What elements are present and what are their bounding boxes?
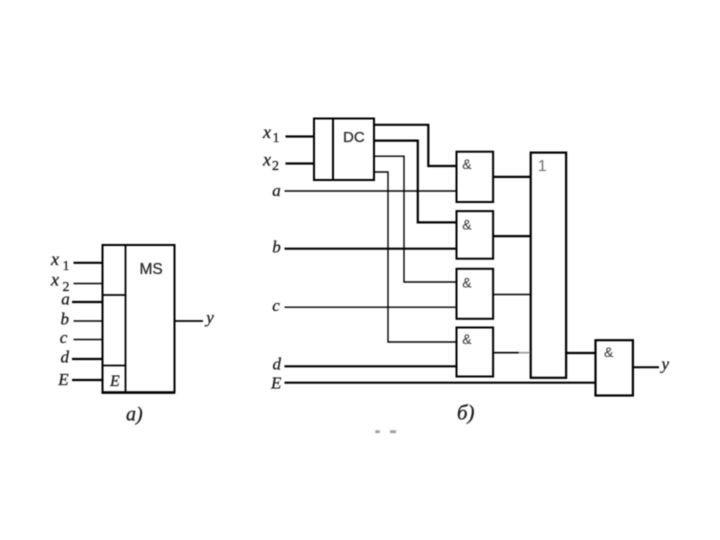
- AND gate DD3 body: [457, 269, 494, 319]
- svg-text:DC: DC: [343, 129, 365, 146]
- svg-text:x: x: [50, 270, 59, 290]
- wire d to MS: [72, 358, 102, 360]
- svg-text:2: 2: [272, 159, 279, 174]
- svg-text:d: d: [273, 355, 282, 374]
- OR gate DD6 body (1): [531, 153, 566, 378]
- MS data/enable section divider: [102, 365, 125, 367]
- multiplexer D1 (MS) body: [102, 245, 176, 393]
- wire x1 to MS: [74, 262, 103, 264]
- svg-text:а): а): [126, 404, 143, 426]
- wire b to AND2: [285, 248, 457, 250]
- wire AND1 output to OR: [493, 176, 531, 178]
- svg-text:y: y: [660, 355, 670, 374]
- AND gate DD1 body: [457, 152, 494, 202]
- svg-text:E: E: [57, 370, 69, 389]
- svg-text:&: &: [462, 331, 472, 347]
- wire AND2 output to OR: [493, 235, 531, 237]
- stray speckle marks: [375, 430, 396, 433]
- svg-text:a: a: [272, 181, 281, 200]
- svg-text:&: &: [462, 217, 472, 233]
- wire MS output y: [175, 320, 204, 322]
- wire DC output 2 to AND3: [374, 156, 457, 282]
- wire a to MS: [72, 301, 102, 303]
- wire x2 to MS: [74, 283, 103, 285]
- input label x1 (a): [50, 249, 70, 274]
- wire AND3 output to OR: [493, 294, 531, 296]
- wire OR output to AND5: [566, 352, 595, 354]
- svg-text:x: x: [262, 122, 271, 142]
- svg-text:&: &: [604, 344, 614, 360]
- input label x2 (a): [50, 270, 70, 296]
- wire E to MS: [72, 379, 102, 381]
- wire DC output 1 to AND2: [374, 141, 457, 223]
- svg-text:x: x: [50, 249, 59, 269]
- wire b to MS: [74, 320, 103, 322]
- wire c to MS: [74, 339, 103, 341]
- svg-text:x: x: [262, 150, 271, 170]
- svg-text:d: d: [61, 348, 70, 367]
- input label x2 (b): [262, 150, 279, 175]
- AND gate DD4 body: [457, 328, 494, 377]
- wire AND5 output y: [633, 366, 659, 368]
- wire x2 to DC: [286, 162, 315, 164]
- wire AND4 output to OR: [493, 352, 531, 354]
- svg-text:&: &: [462, 275, 472, 291]
- svg-text:1: 1: [63, 259, 70, 274]
- svg-text:1: 1: [538, 158, 547, 175]
- svg-text:E: E: [270, 373, 282, 392]
- svg-text:б): б): [457, 401, 475, 425]
- svg-text:c: c: [272, 296, 280, 315]
- AND gate DD5 body: [596, 340, 633, 395]
- wire x1 to DC: [286, 135, 315, 137]
- wire DC output 0 to AND1: [374, 125, 457, 166]
- svg-text:&: &: [462, 156, 472, 172]
- wire E to AND5: [285, 382, 596, 384]
- wire d to AND4: [285, 365, 457, 367]
- svg-text:E: E: [109, 373, 120, 390]
- input label x1 (b): [262, 122, 280, 146]
- wire a to AND1: [285, 190, 457, 192]
- decoder D2 (DC) body: [314, 119, 374, 181]
- MS select/data section divider: [102, 294, 125, 296]
- svg-text:b: b: [61, 310, 70, 329]
- svg-text:a: a: [61, 290, 70, 309]
- wire c to AND3: [285, 306, 457, 308]
- svg-text:c: c: [60, 328, 68, 347]
- AND gate DD2 body: [457, 211, 494, 259]
- svg-text:b: b: [272, 237, 281, 256]
- svg-text:y: y: [204, 308, 214, 327]
- svg-text:1: 1: [273, 131, 280, 146]
- wire DC output 3 to AND4: [374, 172, 457, 342]
- svg-text:MS: MS: [140, 261, 163, 278]
